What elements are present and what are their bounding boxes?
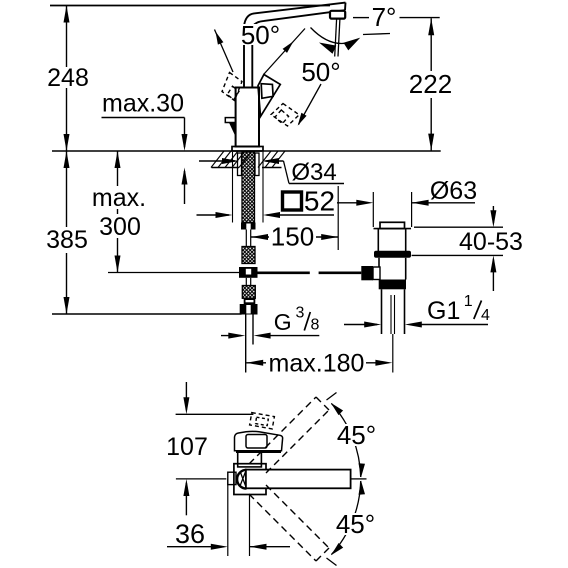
top view cartridge block xyxy=(238,452,262,467)
svg-text:4: 4 xyxy=(481,307,490,324)
top view upper reference line xyxy=(176,413,254,415)
svg-text:50°: 50° xyxy=(241,20,280,50)
50 degree leader line right with arrow xyxy=(264,29,305,75)
drain body upper xyxy=(378,229,405,252)
temperature limiter tab xyxy=(225,118,235,136)
dimension 36 arrows xyxy=(167,544,290,550)
label 45 degrees lower xyxy=(333,509,378,539)
top view body xyxy=(234,464,266,495)
diameter 63 dimension line with arrows xyxy=(337,200,475,206)
lever handle dashed left position xyxy=(222,73,242,101)
dimension 248 vertical line with arrows xyxy=(64,6,70,152)
50 degree leader line left with arrow xyxy=(215,30,234,73)
lever handle dashed right position xyxy=(271,104,299,127)
supply hose lines xyxy=(246,315,253,373)
svg-text:385: 385 xyxy=(46,226,88,254)
drain pull rod knob xyxy=(361,266,373,280)
drain flange xyxy=(374,228,412,230)
svg-text:150: 150 xyxy=(271,222,314,252)
pull rod pipe segment 2 xyxy=(246,278,250,286)
svg-text:300: 300 xyxy=(99,213,141,241)
385 bottom reference line xyxy=(52,313,242,315)
threaded shank with crosshatch xyxy=(242,152,255,223)
G3/8 dimension arrows xyxy=(221,333,319,339)
label 45 degrees upper xyxy=(334,420,379,450)
threaded hose section 2 xyxy=(242,286,255,299)
svg-text:222: 222 xyxy=(409,69,452,99)
dimension 107 bottom arrow xyxy=(183,479,189,515)
dimension 40-53 top arrow xyxy=(414,206,503,227)
dimension 385 vertical line with arrows xyxy=(64,151,70,314)
svg-text:7°: 7° xyxy=(372,2,397,32)
52 dimension line with arrows xyxy=(197,212,335,218)
dimension 107 top arrow xyxy=(183,382,189,414)
label max. 300 xyxy=(90,184,148,241)
drain tailpipe xyxy=(382,289,405,334)
top view spout xyxy=(246,470,351,489)
faucet neck xyxy=(244,26,252,88)
pull rod pipe segment 1 xyxy=(246,230,250,247)
svg-text:max.: max. xyxy=(92,184,146,212)
50 degree right leader to dashed handle xyxy=(298,84,321,126)
shank end nut xyxy=(241,223,256,230)
top view dashed spout rotated down xyxy=(249,485,337,566)
45 degree arc lower xyxy=(331,481,365,556)
svg-text:40-53: 40-53 xyxy=(459,228,523,256)
label max.30 with underline xyxy=(102,90,185,118)
drain centerline extension xyxy=(392,334,394,373)
svg-text:50°: 50° xyxy=(301,57,340,87)
45 degree arc upper xyxy=(331,403,365,478)
max height reference line xyxy=(50,5,330,7)
drain o-ring xyxy=(374,251,411,258)
top view dashed spout rotated up xyxy=(249,393,337,474)
svg-text:Ø34: Ø34 xyxy=(291,159,336,186)
G3/8 connection nut xyxy=(240,304,258,315)
threaded hose section 1 xyxy=(242,247,255,264)
drain extension lines xyxy=(373,192,411,227)
short reference line right of swivel arc xyxy=(363,34,390,35)
hose collar xyxy=(244,298,256,304)
faucet body xyxy=(236,88,259,147)
svg-text:8: 8 xyxy=(311,317,320,334)
pop-up rod clamp xyxy=(239,267,258,278)
svg-text:G1: G1 xyxy=(427,297,460,325)
label 248 xyxy=(46,64,90,92)
dimension 150 with arrows xyxy=(251,234,338,240)
top view centerline xyxy=(176,478,367,480)
dimension 40-53 bottom arrow xyxy=(412,255,503,291)
escutcheon extension lines xyxy=(233,152,264,223)
square symbol of 52 label xyxy=(283,192,302,210)
max.30 arrow below deck xyxy=(182,168,188,205)
label G1 1/4 xyxy=(427,293,490,325)
mounting hardware tabs under escutcheon xyxy=(238,153,260,176)
svg-text:max.180: max.180 xyxy=(269,350,365,378)
svg-text:45°: 45° xyxy=(337,420,376,450)
dimension max.300 vertical line with arrows xyxy=(115,151,121,273)
36 extension lines xyxy=(228,479,250,556)
svg-text:3: 3 xyxy=(296,305,305,322)
diameter 34 dimension arrows at deck hole xyxy=(199,158,344,184)
drain rod connector block xyxy=(373,267,380,280)
drain coupling nut xyxy=(379,280,406,290)
svg-text:248: 248 xyxy=(47,64,89,92)
max.30 arrow above deck xyxy=(182,118,188,152)
label 385 xyxy=(45,226,89,254)
svg-text:36: 36 xyxy=(175,519,205,549)
counter deck reference line xyxy=(52,150,441,152)
svg-text:max.30: max.30 xyxy=(102,90,184,118)
dimension max.180 with arrows xyxy=(246,360,392,366)
G1 1/4 dimension arrows xyxy=(344,322,488,328)
lever handle solid xyxy=(258,75,280,117)
label G3/8 xyxy=(274,305,320,336)
svg-text:Ø63: Ø63 xyxy=(430,177,477,205)
spout swivel arc with arrows xyxy=(311,28,361,54)
deck cross-section with hatching xyxy=(211,151,285,168)
svg-text:G: G xyxy=(274,309,292,335)
svg-text:45°: 45° xyxy=(336,509,375,539)
drain pop-up waste top cap xyxy=(380,222,405,228)
top view lever pad xyxy=(235,431,283,451)
150 right extension line xyxy=(337,186,339,250)
top view pivot semicircle xyxy=(237,470,246,489)
label 222 xyxy=(408,69,453,99)
drain body lower xyxy=(379,258,406,280)
aerator xyxy=(330,11,345,19)
faucet spout xyxy=(244,3,346,28)
water stream lines xyxy=(335,19,340,57)
pop-up rod horizontal xyxy=(108,272,361,274)
top view lever dashed raised position xyxy=(250,413,275,429)
label 50 degrees left xyxy=(240,20,282,50)
escutcheon base xyxy=(232,147,263,152)
svg-text:52: 52 xyxy=(304,186,335,217)
svg-text:1: 1 xyxy=(464,293,473,310)
dimension 222 vertical line with arrows xyxy=(428,18,434,150)
svg-text:107: 107 xyxy=(166,433,208,461)
7 degree reference lines xyxy=(353,17,440,19)
top view left tab xyxy=(228,472,236,484)
